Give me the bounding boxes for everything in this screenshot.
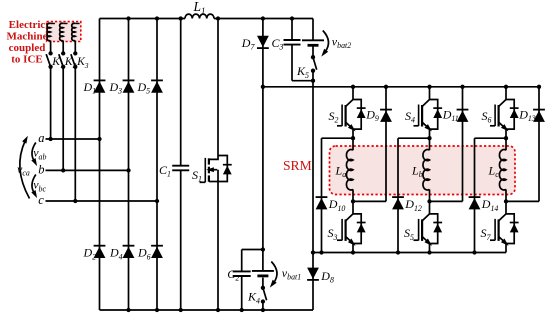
diode D2 bbox=[94, 246, 106, 258]
svg-text:to ICE: to ICE bbox=[11, 54, 42, 66]
label C1 bbox=[159, 163, 171, 179]
diode D14 bbox=[469, 197, 481, 209]
svg-text:b: b bbox=[38, 162, 44, 176]
battery1 plate gap bbox=[261, 270, 265, 278]
node a wire bbox=[46, 137, 100, 141]
diode D9 bbox=[380, 110, 392, 122]
diode D4 bbox=[123, 246, 135, 258]
label v_bat1 bbox=[282, 266, 301, 282]
junction dot S4 rail bbox=[427, 85, 431, 89]
switch K4 gap bbox=[261, 289, 265, 301]
wire D7 anode bbox=[261, 16, 265, 310]
arrow v_bc bbox=[31, 175, 39, 200]
diode D8 wire bbox=[312, 253, 314, 311]
electric machine winding box (dashed) bbox=[47, 22, 81, 42]
transistor S4 (IGBT) bbox=[414, 100, 443, 134]
diode D3 bbox=[123, 80, 135, 92]
top rail left segment bbox=[100, 18, 186, 20]
label D10 bbox=[328, 197, 346, 213]
label D12 bbox=[404, 197, 422, 213]
label c bbox=[38, 193, 44, 207]
label S3 bbox=[328, 226, 338, 242]
main bottom rail bbox=[100, 309, 314, 311]
label D9 bbox=[365, 107, 379, 123]
wire S6 collector bbox=[505, 87, 507, 100]
label C3 bbox=[272, 36, 284, 52]
label K4 bbox=[247, 290, 260, 306]
junction dot S2 rail bbox=[351, 85, 355, 89]
label D4 bbox=[109, 246, 123, 262]
svg-text:c: c bbox=[38, 193, 44, 207]
capacitor C1 bbox=[172, 166, 189, 171]
phase b bottom node bbox=[427, 199, 431, 203]
label L1 bbox=[193, 0, 206, 16]
label D13 bbox=[518, 107, 536, 123]
label S2 bbox=[329, 109, 339, 125]
arrow v_ab bbox=[31, 143, 39, 168]
wire S2 collector bbox=[352, 87, 354, 100]
node a junction bbox=[97, 137, 101, 141]
label La bbox=[335, 163, 347, 179]
switch K1 bbox=[46, 51, 53, 139]
wire S7 collector bbox=[505, 201, 507, 214]
label S7 bbox=[481, 226, 492, 242]
node b wire bbox=[46, 168, 131, 172]
phase a bottom node bbox=[351, 199, 355, 203]
mosfet S1 bbox=[200, 156, 232, 183]
junction dot D7-rail bbox=[261, 85, 265, 89]
wire S5 emitter bbox=[427, 244, 431, 255]
diode D8 bbox=[307, 268, 319, 280]
top rail right segment bbox=[214, 18, 313, 20]
wire battery2 column bbox=[312, 19, 314, 253]
wire phase b top to D12 bbox=[396, 138, 430, 254]
node c wire bbox=[46, 199, 160, 203]
label D14 bbox=[481, 197, 499, 213]
junction dot C3 bottom bbox=[311, 79, 315, 83]
wire S1 source bbox=[216, 182, 220, 313]
phase winding Lc bbox=[499, 150, 506, 202]
label b bbox=[38, 162, 44, 176]
transistor S6 (IGBT) bbox=[490, 100, 519, 134]
label D6 bbox=[137, 246, 151, 262]
junction dot battery1 tee bbox=[261, 247, 265, 251]
wire phase a bottom to D9 bbox=[353, 85, 388, 202]
label C2 bbox=[227, 267, 239, 283]
label: Electric Machine coupled to ICE bbox=[7, 19, 48, 65]
transistor S7 (IGBT) bbox=[490, 214, 519, 248]
label v_ca bbox=[17, 162, 30, 178]
machine winding 2 bbox=[60, 23, 68, 40]
wire S4 emitter to phase node bbox=[427, 129, 431, 150]
svg-text:coupled: coupled bbox=[9, 42, 46, 54]
wire machine to switch K2 bbox=[62, 41, 64, 54]
diode D11 bbox=[457, 110, 469, 122]
wire S6 emitter to phase node bbox=[504, 129, 508, 150]
wire phase b bottom to D11 bbox=[430, 85, 465, 202]
wire S4 collector bbox=[429, 87, 431, 100]
wire phase c bottom to D13 bbox=[506, 85, 541, 202]
switch K5 bbox=[311, 55, 317, 73]
svg-text:SRM: SRM bbox=[283, 158, 312, 173]
SRM top rail bbox=[263, 86, 539, 88]
capacitor C1 wire bbox=[179, 19, 183, 313]
wire machine to switch K3 bbox=[74, 41, 76, 54]
label S1 bbox=[192, 168, 202, 184]
label D11 bbox=[442, 107, 459, 123]
switch K2 bbox=[59, 51, 66, 170]
label S4 bbox=[405, 109, 415, 125]
wire C3 bbox=[292, 19, 313, 81]
svg-text:a: a bbox=[38, 131, 44, 145]
battery v_bat1 bbox=[252, 271, 274, 276]
wire machine to switch K1 bbox=[50, 41, 52, 54]
label K2 bbox=[64, 56, 77, 70]
arrow v_ca bbox=[20, 135, 30, 199]
diode D7 bbox=[257, 36, 269, 48]
label D8 bbox=[320, 269, 334, 285]
junction dot S6 rail bbox=[504, 85, 508, 89]
label D2 bbox=[83, 246, 97, 262]
diode D1 bbox=[94, 80, 106, 92]
diode D5 bbox=[151, 80, 163, 92]
phase winding Lb bbox=[423, 150, 430, 202]
diode D6 bbox=[151, 246, 163, 258]
capacitor C3 bbox=[284, 40, 301, 45]
label K3 bbox=[76, 56, 89, 70]
label v_bat2 bbox=[332, 34, 351, 50]
diode D12 bbox=[392, 197, 404, 209]
wire S5 collector bbox=[429, 201, 431, 214]
SRM winding box (dashed) bbox=[330, 146, 516, 195]
wire C2 top connector bbox=[240, 250, 263, 313]
diode D10 bbox=[316, 197, 328, 209]
arrow v_bat2 bbox=[319, 31, 328, 59]
phase winding La bbox=[346, 150, 353, 202]
phase c bottom node bbox=[504, 199, 508, 203]
inductor L1 bbox=[185, 14, 214, 18]
label a bbox=[38, 131, 44, 145]
wire S3 emitter bbox=[351, 244, 355, 255]
machine winding 3 bbox=[72, 23, 80, 40]
rectifier leg 2 wire bbox=[126, 16, 130, 312]
wire phase a top to D10 bbox=[319, 138, 353, 254]
label S5 bbox=[404, 226, 414, 242]
label D7 bbox=[241, 36, 256, 52]
capacitor C2 bbox=[233, 271, 251, 276]
label D1 bbox=[83, 80, 97, 96]
label D3 bbox=[109, 80, 123, 96]
wire phase c top to D14 bbox=[472, 138, 506, 254]
transistor S3 (IGBT) bbox=[337, 214, 366, 248]
transistor S5 (IGBT) bbox=[414, 214, 443, 248]
junction dot C3 top bbox=[290, 16, 294, 20]
svg-text:Machine: Machine bbox=[7, 31, 48, 43]
label SRM bbox=[283, 158, 312, 173]
rectifier leg 1 wire bbox=[99, 19, 101, 311]
junction dot S1 top bbox=[216, 16, 220, 20]
label v_ab bbox=[33, 146, 46, 162]
rectifier leg 3 wire bbox=[155, 16, 159, 312]
label Lb bbox=[411, 163, 423, 179]
label K1 bbox=[51, 56, 63, 70]
SRM bottom rail bbox=[311, 250, 506, 254]
wire S3 collector bbox=[352, 201, 354, 214]
label S6 bbox=[482, 109, 492, 125]
diode D13 bbox=[533, 110, 545, 122]
label Lc bbox=[488, 163, 500, 179]
switch K4 bbox=[261, 286, 267, 313]
arrow v_bat1 bbox=[268, 262, 277, 290]
switch K3 bbox=[71, 51, 78, 201]
label v_bc bbox=[33, 178, 46, 194]
transistor S2 (IGBT) bbox=[337, 100, 366, 134]
wire S7 emitter bbox=[505, 244, 507, 253]
junction dot C1 top bbox=[179, 16, 183, 20]
label D5 bbox=[137, 80, 151, 96]
machine winding 1 bbox=[47, 23, 55, 40]
label K5 bbox=[296, 64, 309, 80]
battery v_bat2 bbox=[302, 40, 324, 45]
svg-text:Electric: Electric bbox=[9, 19, 46, 31]
wire S1 drain bbox=[217, 19, 219, 156]
wire S2 emitter to phase node bbox=[351, 129, 355, 150]
